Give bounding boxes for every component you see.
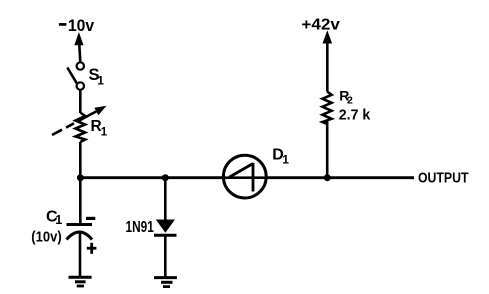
svg-text:1: 1: [101, 127, 108, 139]
capacitor C1: [67, 218, 97, 253]
svg-text:+42v: +42v: [301, 16, 340, 33]
svg-text:1: 1: [97, 74, 104, 88]
wire: [164, 235, 167, 277]
svg-text:OUTPUT: OUTPUT: [418, 170, 469, 187]
label (10v): [31, 228, 62, 245]
diode D1: [223, 155, 266, 198]
svg-text:(10v): (10v): [31, 228, 62, 245]
svg-text:1: 1: [55, 213, 62, 227]
label S1: [89, 66, 105, 88]
switch S1: [67, 62, 84, 89]
label OUTPUT: [418, 170, 469, 187]
label R2: [339, 88, 353, 107]
label +42v supply: [301, 16, 340, 33]
resistor R1 (variable): [52, 106, 107, 142]
svg-text:1N91: 1N91: [126, 219, 154, 236]
supply arrow -10v: [74, 32, 83, 62]
supply arrow +42v: [323, 30, 333, 91]
junction node A: [77, 174, 84, 181]
svg-text:2: 2: [347, 95, 353, 107]
label 1N91: [126, 219, 154, 236]
diode 1N91: [154, 220, 177, 236]
label 2.7k: [339, 108, 371, 124]
resistor R2: [322, 92, 331, 125]
label -10v supply: [59, 17, 95, 35]
label R1: [91, 118, 108, 139]
label D1: [272, 147, 289, 167]
ground (1N91): [154, 278, 177, 287]
svg-text:10v: 10v: [68, 17, 95, 35]
wire: [164, 178, 167, 220]
wire: [326, 122, 329, 178]
wire: [79, 142, 82, 225]
svg-text:2.7 k: 2.7 k: [339, 108, 371, 124]
wire: [79, 90, 82, 113]
ground (C1): [69, 277, 92, 286]
svg-text:1: 1: [282, 153, 289, 167]
junction node C: [324, 174, 331, 181]
wire main horizontal: [80, 176, 414, 179]
junction node B: [162, 174, 169, 181]
wire: [79, 233, 82, 277]
label C1: [46, 209, 62, 228]
